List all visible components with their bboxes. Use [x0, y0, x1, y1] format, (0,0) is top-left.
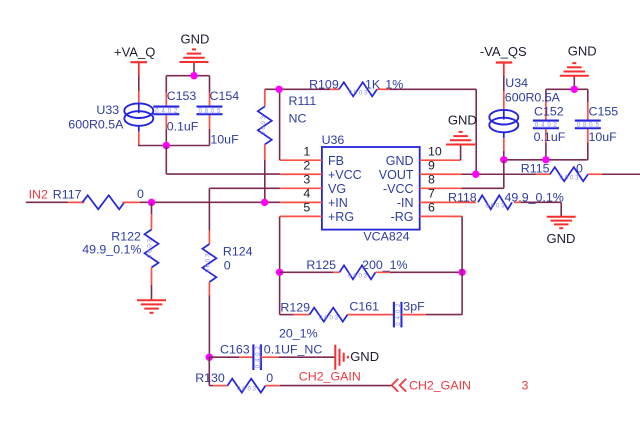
- svg-text:R122: R122: [111, 230, 141, 244]
- svg-text:+VCC: +VCC: [328, 168, 362, 182]
- svg-text:+VA_Q: +VA_Q: [114, 45, 155, 60]
- svg-text:GND: GND: [386, 154, 414, 168]
- svg-text:CH2_GAIN: CH2_GAIN: [409, 378, 471, 392]
- svg-text:2: 2: [303, 159, 310, 173]
- svg-text:C163: C163: [220, 343, 250, 357]
- svg-text:0603: 0603: [261, 115, 267, 135]
- svg-text:C154: C154: [210, 89, 240, 103]
- svg-text:R118: R118: [448, 191, 477, 205]
- svg-text:+RG: +RG: [328, 210, 354, 224]
- svg-text:GND: GND: [448, 113, 477, 128]
- svg-text:0603: 0603: [486, 203, 506, 209]
- svg-text:U36: U36: [322, 133, 345, 147]
- svg-text:0603: 0603: [319, 316, 339, 322]
- svg-text:R117: R117: [53, 188, 82, 202]
- svg-text:3: 3: [303, 173, 310, 187]
- svg-text:FB: FB: [328, 154, 344, 168]
- svg-text:GND: GND: [547, 231, 576, 246]
- svg-text:20_1%: 20_1%: [279, 327, 318, 341]
- svg-text:0.1uF: 0.1uF: [167, 120, 199, 134]
- svg-text:5: 5: [303, 201, 310, 215]
- svg-text:C161: C161: [349, 300, 379, 314]
- svg-text:3pF: 3pF: [403, 300, 425, 314]
- svg-text:6: 6: [428, 201, 435, 215]
- svg-text:0: 0: [576, 162, 583, 176]
- svg-text:C153: C153: [167, 89, 197, 103]
- svg-text:1: 1: [303, 145, 310, 159]
- svg-text:U33: U33: [96, 103, 119, 117]
- svg-text:0.1UF_NC: 0.1UF_NC: [264, 343, 323, 357]
- svg-text:NC: NC: [289, 111, 307, 125]
- svg-text:C155: C155: [589, 104, 619, 118]
- svg-text:GND: GND: [181, 32, 210, 47]
- svg-text:49.9_0.1%: 49.9_0.1%: [505, 191, 564, 205]
- svg-text:600R0.5A: 600R0.5A: [68, 117, 124, 131]
- svg-text:+IN: +IN: [328, 196, 348, 210]
- svg-text:7: 7: [428, 187, 435, 201]
- svg-text:IN2: IN2: [29, 188, 48, 202]
- svg-text:-IN: -IN: [397, 196, 414, 210]
- svg-text:VG: VG: [328, 182, 346, 196]
- svg-text:R124: R124: [223, 244, 253, 258]
- svg-text:VCA824: VCA824: [363, 229, 409, 243]
- svg-text:0.1uF: 0.1uF: [534, 130, 566, 144]
- svg-text:0603: 0603: [237, 387, 257, 393]
- svg-text:C152: C152: [534, 104, 564, 118]
- svg-text:0603: 0603: [148, 238, 154, 258]
- svg-text:0603: 0603: [205, 253, 211, 273]
- svg-text:9: 9: [428, 159, 435, 173]
- svg-text:R115: R115: [521, 162, 550, 176]
- svg-text:R130: R130: [195, 371, 225, 385]
- svg-text:0: 0: [266, 371, 273, 385]
- svg-text:U34: U34: [505, 76, 528, 90]
- svg-text:1K: 1K: [365, 77, 381, 91]
- svg-text:GND: GND: [350, 349, 379, 364]
- svg-text:200_1%: 200_1%: [362, 258, 407, 272]
- svg-text:10uF: 10uF: [210, 133, 239, 147]
- svg-text:49.9_0.1%: 49.9_0.1%: [82, 243, 141, 257]
- svg-text:-RG: -RG: [391, 210, 414, 224]
- svg-text:R129: R129: [280, 301, 310, 315]
- svg-text:0: 0: [137, 187, 144, 201]
- svg-text:CH2_GAIN: CH2_GAIN: [299, 370, 361, 384]
- svg-text:R111: R111: [289, 94, 317, 108]
- svg-text:0: 0: [224, 258, 231, 272]
- svg-text:-VCC: -VCC: [383, 182, 414, 196]
- svg-text:0603: 0603: [348, 273, 368, 279]
- svg-text:10: 10: [428, 145, 442, 159]
- svg-text:0603: 0603: [560, 175, 580, 181]
- svg-text:-VA_QS: -VA_QS: [480, 44, 527, 59]
- svg-text:3: 3: [522, 378, 529, 392]
- svg-text:4: 4: [303, 187, 310, 201]
- svg-text:10uF: 10uF: [589, 130, 618, 144]
- svg-text:R125: R125: [306, 258, 336, 272]
- svg-text:8: 8: [428, 173, 435, 187]
- svg-text:GND: GND: [568, 44, 597, 59]
- svg-text:VOUT: VOUT: [379, 168, 414, 182]
- svg-text:R109: R109: [309, 77, 339, 91]
- svg-text:600R0.5A: 600R0.5A: [505, 91, 561, 105]
- svg-text:1%: 1%: [385, 77, 403, 91]
